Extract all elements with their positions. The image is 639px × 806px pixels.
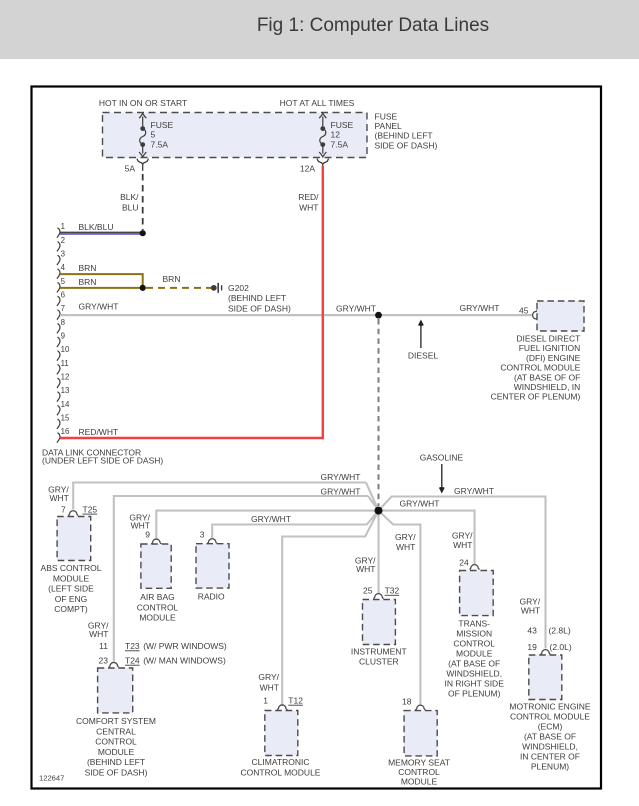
svg-text:9: 9 [61,331,66,340]
svg-text:1: 1 [61,222,65,231]
svg-text:BRN: BRN [79,277,97,287]
wire RED/WHT from fuse 12 to pin 16 [60,166,323,438]
connector 5A below fuse 5 [137,159,148,171]
svg-text:OF PLENUM): OF PLENUM) [448,688,501,698]
diagram border frame [32,87,602,789]
svg-text:CONTROL: CONTROL [453,638,495,648]
svg-text:DIESEL: DIESEL [408,350,439,360]
svg-text:(BEHIND LEFT: (BEHIND LEFT [375,131,433,141]
svg-text:(2.0L): (2.0L) [550,642,572,652]
DLC pin 5 [57,282,60,292]
svg-text:GRY/: GRY/ [258,672,279,682]
junction node pin1/fuse5 [140,230,146,236]
svg-text:12A: 12A [300,164,315,174]
svg-text:MEMORY SEAT: MEMORY SEAT [388,757,450,767]
svg-text:45: 45 [519,305,529,315]
DLC pin 6 [57,296,60,306]
svg-text:(LEFT SIDE: (LEFT SIDE [48,584,94,594]
svg-text:BLU: BLU [122,203,139,213]
svg-text:12: 12 [331,130,341,140]
svg-text:GRY/WHT: GRY/WHT [321,486,361,496]
svg-text:13: 13 [61,386,70,395]
svg-text:GRY/WHT: GRY/WHT [460,303,500,313]
svg-text:MOTRONIC ENGINE: MOTRONIC ENGINE [509,702,591,712]
svg-text:CONTROL: CONTROL [95,737,137,747]
wire pin4 BRN [60,274,143,288]
svg-text:GRY/WHT: GRY/WHT [251,514,291,524]
wire BRN dashed to G202 [146,287,212,289]
svg-text:11: 11 [99,641,108,651]
svg-text:GRY/WHT: GRY/WHT [454,486,494,496]
DLC pin 2 [57,241,60,251]
svg-text:7.5A: 7.5A [331,139,349,149]
wire GRY/WHT to transmission module [379,511,475,565]
connector 12A below fuse 12 [317,159,328,171]
svg-text:CLIMATRONIC: CLIMATRONIC [252,757,310,767]
svg-text:FUSE: FUSE [151,120,174,130]
module U1 DIESEL DIRECT FUEL IGNITION (DFI) ENGINE CONTROL MODULE [537,301,584,331]
svg-text:BLK/: BLK/ [120,192,139,202]
svg-text:WHT: WHT [521,605,540,615]
svg-text:WHT: WHT [89,629,108,639]
wire GRY/WHT to instrument cluster [377,511,379,594]
svg-text:(W/ MAN WINDOWS): (W/ MAN WINDOWS) [143,655,226,665]
svg-text:ABS CONTROL: ABS CONTROL [41,563,102,573]
svg-text:BRN: BRN [79,263,97,273]
svg-text:CONTROL MODULE: CONTROL MODULE [510,712,590,722]
central junction node GRY/WHT [375,507,383,515]
svg-text:24: 24 [459,557,469,567]
svg-text:GASOLINE: GASOLINE [420,452,464,462]
svg-text:T23: T23 [125,641,140,651]
DIESEL arrow [420,324,422,349]
svg-text:CLUSTER: CLUSTER [359,657,399,667]
svg-text:7: 7 [61,504,66,514]
svg-text:AIR BAG: AIR BAG [140,592,174,602]
svg-text:T32: T32 [385,586,400,596]
svg-text:IN CENTER OF: IN CENTER OF [520,752,580,762]
svg-text:FUSE: FUSE [331,120,354,130]
svg-text:(ECM): (ECM) [538,722,563,732]
svg-text:CONTROL: CONTROL [398,767,440,777]
svg-text:(BEHIND LEFT: (BEHIND LEFT [87,757,145,767]
svg-text:SIDE OF DASH): SIDE OF DASH) [228,303,291,313]
svg-text:(AT BASE OF: (AT BASE OF [448,658,500,668]
fuse 5 7.5A [139,113,146,156]
DLC pin 13 [57,392,60,402]
svg-text:SIDE OF DASH): SIDE OF DASH) [85,768,148,778]
svg-text:(2.8L): (2.8L) [549,626,571,636]
svg-text:(W/ PWR WINDOWS): (W/ PWR WINDOWS) [143,641,227,651]
svg-text:14: 14 [61,400,70,409]
svg-text:GRY/WHT: GRY/WHT [321,472,361,482]
wire dashed GRY/WHT vertical [378,319,380,506]
svg-text:G202: G202 [228,283,249,293]
svg-text:122647: 122647 [39,774,64,783]
svg-text:T12: T12 [288,695,303,705]
svg-text:GRY/: GRY/ [395,532,416,542]
fuse 12 7.5A [319,113,326,156]
svg-text:CONTROL MODULE: CONTROL MODULE [500,363,580,373]
svg-text:4: 4 [61,263,66,272]
svg-text:CONTROL MODULE: CONTROL MODULE [241,768,321,778]
svg-text:COMPT): COMPT) [54,604,88,614]
DLC pin 16 [57,433,60,443]
svg-text:DIESEL DIRECT: DIESEL DIRECT [516,334,580,344]
svg-text:12: 12 [61,372,70,381]
svg-text:MODULE: MODULE [53,573,90,583]
wire GRY/WHT to climatronic [282,511,378,705]
svg-text:19: 19 [527,642,537,652]
svg-text:CENTER OF PLENUM): CENTER OF PLENUM) [491,392,581,402]
svg-text:9: 9 [145,530,150,540]
svg-text:11: 11 [61,359,69,368]
svg-text:RED/: RED/ [298,192,319,202]
svg-text:5A: 5A [125,164,136,174]
svg-text:MISSION: MISSION [456,628,492,638]
svg-text:T25: T25 [83,504,98,514]
svg-text:MODULE: MODULE [98,747,135,757]
svg-text:8: 8 [61,318,66,327]
DLC pin 11 [57,364,60,374]
svg-text:CONTROL: CONTROL [137,602,179,612]
junction node BRN [140,285,146,291]
svg-text:GRY/WHT: GRY/WHT [400,499,440,509]
svg-text:18: 18 [402,696,412,706]
svg-text:16: 16 [61,427,70,436]
svg-text:WHT: WHT [49,493,68,503]
svg-text:(AT BASE OF OF: (AT BASE OF OF [514,372,580,382]
svg-text:COMFORT SYSTEM: COMFORT SYSTEM [76,716,156,726]
svg-text:PANEL: PANEL [375,121,403,131]
wire GRY/WHT to memory seat module [379,511,421,705]
DLC pin 1 [57,228,60,238]
svg-text:(UNDER LEFT SIDE OF DASH): (UNDER LEFT SIDE OF DASH) [42,455,163,465]
svg-text:PLENUM): PLENUM) [531,762,569,772]
svg-text:IN RIGHT SIDE: IN RIGHT SIDE [445,678,505,688]
svg-text:7.5A: 7.5A [151,139,169,149]
svg-text:WINDSHIELD, IN: WINDSHIELD, IN [514,382,581,392]
svg-text:2: 2 [61,236,65,245]
svg-text:43: 43 [527,626,537,636]
DLC pin 4 [57,269,60,279]
svg-text:MODULE: MODULE [401,777,438,787]
DLC pin 3 [57,255,60,265]
svg-text:WINDSHIELD,: WINDSHIELD, [446,668,502,678]
svg-text:25: 25 [363,586,373,596]
DLC pin 10 [57,351,60,361]
svg-text:10: 10 [61,345,70,354]
svg-text:5: 5 [61,277,66,286]
title bar [0,0,639,59]
svg-text:3: 3 [61,250,66,259]
svg-text:(AT BASE OF: (AT BASE OF [524,732,576,742]
svg-text:OF ENG: OF ENG [55,594,88,604]
svg-text:HOT AT ALL TIMES: HOT AT ALL TIMES [280,98,355,108]
wire GRY/WHT to ABS [73,483,366,510]
DLC pin 7 [57,310,60,320]
DLC pin 15 [57,419,60,429]
svg-text:6: 6 [61,291,66,300]
svg-text:FUSE: FUSE [375,111,398,121]
svg-text:WHT: WHT [260,683,279,693]
svg-text:RADIO: RADIO [198,592,225,602]
svg-text:WHT: WHT [356,564,375,574]
DLC pin 8 [57,323,60,333]
fuse panel box [103,113,368,158]
svg-text:GRY/WHT: GRY/WHT [79,301,119,311]
svg-text:MODULE: MODULE [456,648,493,658]
wire GRY/WHT to radio [212,511,378,538]
svg-text:23: 23 [99,655,109,665]
svg-text:GRY/WHT: GRY/WHT [336,304,376,314]
svg-text:FUEL IGNITION: FUEL IGNITION [519,343,581,353]
DLC pin 12 [57,378,60,388]
svg-text:WHT: WHT [299,203,318,213]
wire pin1 BLK/BLU [60,231,143,233]
svg-text:Fig 1: Computer Data Lines: Fig 1: Computer Data Lines [257,15,489,36]
svg-text:CENTRAL: CENTRAL [96,726,136,736]
svg-text:(DFI) ENGINE: (DFI) ENGINE [526,353,581,363]
svg-text:7: 7 [61,304,65,313]
wire pin7 GRY/WHT to DFI module [60,314,533,316]
wire GRY/WHT to comfort module [114,496,368,662]
svg-text:MODULE: MODULE [139,613,176,623]
junction node diesel [375,312,382,319]
svg-text:5: 5 [151,130,156,140]
svg-text:WINDSHIELD,: WINDSHIELD, [522,742,578,752]
ground G202 [211,285,217,291]
svg-text:INSTRUMENT: INSTRUMENT [351,647,407,657]
svg-text:BRN: BRN [163,274,181,284]
svg-text:1: 1 [263,695,268,705]
DLC pin 9 [57,337,60,347]
pin 45 arc [533,310,538,320]
svg-text:15: 15 [61,413,70,422]
svg-text:BLK/BLU: BLK/BLU [79,222,114,232]
svg-text:GRY/: GRY/ [452,530,473,540]
wire BLK/BLU dashed from fuse 5 [142,174,144,230]
svg-text:RED/WHT: RED/WHT [79,427,119,437]
svg-text:SIDE OF DASH): SIDE OF DASH) [375,140,438,150]
svg-text:3: 3 [200,530,205,540]
wire GRY/WHT to air bag module [156,511,378,539]
svg-text:WHT: WHT [396,542,415,552]
wire pin5 BRN [60,287,143,289]
svg-text:TRANS-: TRANS- [458,618,490,628]
wire GRY/WHT to motronic ECM [379,497,546,649]
DLC pin 14 [57,405,60,415]
svg-text:T24: T24 [125,655,140,665]
svg-text:(BEHIND LEFT: (BEHIND LEFT [228,293,286,303]
svg-text:HOT IN ON OR START: HOT IN ON OR START [99,98,187,108]
svg-text:WHT: WHT [453,540,472,550]
